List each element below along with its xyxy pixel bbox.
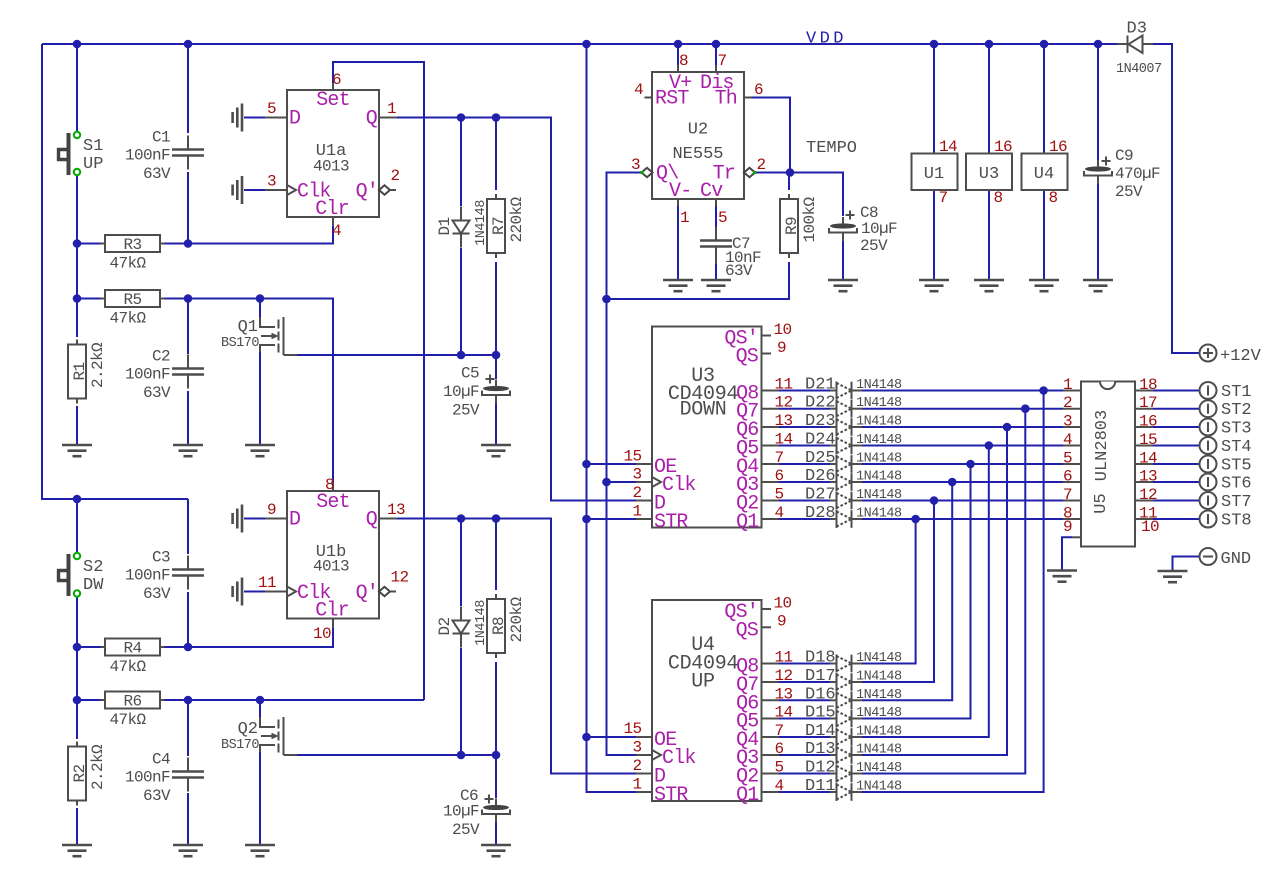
- svg-text:4: 4: [332, 222, 341, 240]
- svg-text:4: 4: [775, 504, 784, 522]
- svg-text:8: 8: [1049, 189, 1058, 207]
- diode D15 1N4148: [805, 704, 902, 728]
- svg-text:10: 10: [774, 321, 792, 339]
- switch S1 UP: [59, 132, 104, 175]
- svg-text:3: 3: [632, 739, 641, 757]
- svg-text:15: 15: [623, 720, 641, 738]
- diode D1 1N4148: [436, 200, 489, 248]
- svg-text:4: 4: [634, 81, 643, 99]
- svg-text:12: 12: [775, 667, 793, 685]
- svg-text:13: 13: [775, 685, 793, 703]
- svg-text:Set: Set: [316, 89, 350, 112]
- wire U4 Q outputs to diodes D18-D11: [779, 664, 830, 793]
- svg-text:Q1: Q1: [736, 784, 759, 807]
- wire U3 power block column: [988, 44, 990, 280]
- svg-text:15: 15: [1139, 431, 1157, 449]
- wire U2 pin5 to C7: [715, 199, 717, 280]
- wire diode D18-D11 cathodes to matrix buses: [862, 391, 1044, 793]
- svg-text:R3: R3: [123, 236, 141, 254]
- resistor R6 47k: [101, 692, 165, 730]
- wire D2 column: [460, 519, 462, 756]
- svg-text:17: 17: [1139, 394, 1157, 412]
- svg-text:7: 7: [775, 722, 784, 740]
- diode D23 1N4148: [805, 412, 902, 436]
- svg-text:Q1: Q1: [736, 511, 759, 534]
- svg-text:3: 3: [631, 156, 640, 174]
- svg-text:1N4007: 1N4007: [1116, 62, 1162, 77]
- svg-text:63V: 63V: [143, 384, 171, 402]
- connector ST2: [1200, 400, 1252, 420]
- svg-text:1N4148: 1N4148: [856, 507, 902, 522]
- svg-text:8: 8: [679, 52, 688, 70]
- svg-text:16: 16: [1049, 138, 1067, 156]
- svg-text:GND: GND: [1221, 550, 1252, 569]
- svg-text:14: 14: [775, 431, 793, 449]
- svg-text:U2: U2: [688, 121, 708, 140]
- flip-flop U1b 4013: [258, 476, 409, 643]
- wire U1b Q output to U4 D: [397, 514, 636, 773]
- wire R5 row to U1b Set: [77, 294, 333, 483]
- svg-text:ST8: ST8: [1221, 512, 1252, 531]
- svg-text:3: 3: [1063, 413, 1072, 431]
- svg-text:1N4148: 1N4148: [856, 706, 902, 721]
- wire C2 column: [187, 299, 189, 446]
- svg-text:D1: D1: [436, 217, 454, 235]
- svg-text:14: 14: [939, 138, 957, 156]
- timer U2 NE555: [631, 52, 766, 227]
- wire VDD-OE-STR net x587: [587, 44, 637, 792]
- svg-text:1: 1: [632, 503, 641, 521]
- svg-text:Q: Q: [366, 108, 378, 131]
- resistor R7 220k: [487, 194, 526, 258]
- grounds under power blocks: [919, 280, 1059, 291]
- capacitor C3 100nF 63V: [125, 549, 204, 603]
- shift register U3 CD4094 DOWN: [623, 321, 792, 534]
- svg-text:Clk: Clk: [662, 474, 696, 497]
- svg-text:1N4148: 1N4148: [856, 651, 902, 666]
- svg-text:D22: D22: [805, 394, 836, 413]
- svg-text:NE555: NE555: [672, 145, 723, 164]
- svg-text:STR: STR: [654, 511, 688, 534]
- wire GND connector to ground: [1173, 557, 1200, 572]
- power block U1 pins 14/7: [912, 138, 958, 207]
- svg-text:Q': Q': [356, 582, 378, 605]
- svg-text:1N4148: 1N4148: [856, 688, 902, 703]
- wire C6 to ground: [495, 755, 497, 845]
- wire diode D21-D28 cathodes to ULN inputs: [862, 386, 1063, 523]
- wire Q2 source to ground: [259, 752, 261, 845]
- svg-text:Th: Th: [715, 88, 737, 111]
- capacitor C2 100nF 63V: [125, 348, 204, 402]
- wire D1 column: [460, 118, 462, 356]
- svg-text:12: 12: [1139, 486, 1157, 504]
- wire U2 Tr pin2 to R9/C8 TEMPO net: [755, 168, 844, 216]
- diode D27 1N4148: [805, 486, 902, 510]
- svg-text:ULN2803: ULN2803: [1093, 410, 1112, 481]
- wire R3 row to U1a Clr: [77, 226, 333, 248]
- connector ST8: [1200, 511, 1252, 531]
- svg-text:6: 6: [1063, 468, 1072, 486]
- svg-text:25V: 25V: [860, 237, 888, 255]
- svg-text:BS170: BS170: [221, 738, 259, 753]
- transistor Q2 BS170: [221, 717, 297, 755]
- svg-text:Clr: Clr: [315, 600, 349, 623]
- svg-text:Set: Set: [316, 491, 350, 514]
- diode D25 1N4148: [805, 449, 902, 473]
- svg-text:5: 5: [267, 100, 276, 118]
- ground at GND connector: [1158, 571, 1188, 582]
- svg-text:ST6: ST6: [1221, 475, 1252, 494]
- svg-text:D3: D3: [1127, 20, 1147, 39]
- wire U1a Q output to U3 D: [397, 113, 636, 500]
- wire U2 pin1 to ground: [677, 199, 679, 280]
- svg-text:S2: S2: [83, 558, 103, 577]
- svg-text:D: D: [289, 108, 300, 131]
- connector ST6: [1200, 474, 1252, 494]
- svg-text:D12: D12: [805, 759, 836, 778]
- svg-text:47kΩ: 47kΩ: [110, 310, 147, 328]
- svg-text:2.2kΩ: 2.2kΩ: [89, 342, 107, 388]
- svg-text:VDD: VDD: [806, 30, 847, 49]
- capacitor C1 100nF 63V: [125, 129, 204, 183]
- svg-text:10µF: 10µF: [443, 803, 479, 821]
- diode D17 1N4148: [805, 667, 902, 691]
- svg-text:C3: C3: [152, 549, 170, 567]
- power block U4 pins 16/8: [1022, 138, 1068, 207]
- svg-text:16: 16: [1139, 413, 1157, 431]
- svg-text:1N4148: 1N4148: [856, 488, 902, 503]
- wire VDD top rail: [42, 44, 1117, 499]
- svg-text:6: 6: [775, 467, 784, 485]
- capacitor C8 10uF 25V: [829, 204, 897, 255]
- svg-text:5: 5: [718, 209, 727, 227]
- svg-text:5: 5: [775, 759, 784, 777]
- svg-text:D15: D15: [805, 704, 836, 723]
- svg-text:D17: D17: [805, 667, 836, 686]
- svg-text:U1: U1: [924, 165, 944, 184]
- svg-text:25V: 25V: [1115, 183, 1143, 201]
- svg-text:10: 10: [313, 625, 331, 643]
- diode D13 1N4148: [805, 740, 902, 764]
- svg-text:ST2: ST2: [1221, 401, 1252, 420]
- svg-text:63V: 63V: [725, 262, 753, 280]
- wire U2 Th pin6 to Tr net: [752, 98, 791, 173]
- wire U1 power block column: [933, 44, 935, 280]
- svg-text:Clk: Clk: [662, 747, 696, 770]
- svg-text:4: 4: [1063, 431, 1072, 449]
- ground at U5 pin9: [1047, 571, 1077, 582]
- connector GND: [1200, 548, 1252, 569]
- diode D22 1N4148: [805, 394, 902, 418]
- svg-text:ST4: ST4: [1221, 438, 1252, 457]
- svg-text:ST7: ST7: [1221, 493, 1252, 512]
- svg-text:D18: D18: [805, 649, 836, 668]
- svg-text:QS: QS: [736, 346, 759, 369]
- capacitor C7 10nF 63V: [700, 227, 761, 280]
- svg-text:R8: R8: [490, 617, 508, 635]
- svg-text:S1: S1: [83, 137, 103, 156]
- wire C1 column: [187, 44, 189, 244]
- diode D28 1N4148: [805, 504, 902, 528]
- wire U3 Clk pin3: [607, 481, 637, 483]
- svg-text:47kΩ: 47kΩ: [110, 711, 147, 729]
- svg-text:D: D: [289, 509, 300, 532]
- svg-text:100nF: 100nF: [125, 147, 170, 165]
- svg-text:8: 8: [994, 189, 1003, 207]
- svg-text:12: 12: [775, 394, 793, 412]
- wire VDD to U2 pin 7: [715, 44, 717, 65]
- ground under R2 C4 Q2 C6: [62, 845, 511, 856]
- svg-text:DOWN: DOWN: [680, 399, 727, 422]
- svg-text:D14: D14: [805, 722, 836, 741]
- svg-text:D11: D11: [805, 777, 836, 796]
- svg-text:C1: C1: [152, 129, 170, 147]
- wire R8 column: [495, 519, 497, 756]
- connector ST5: [1200, 456, 1252, 476]
- diode D12 1N4148: [805, 759, 902, 783]
- svg-text:3: 3: [632, 466, 641, 484]
- svg-text:1N4148: 1N4148: [856, 725, 902, 740]
- svg-text:D13: D13: [805, 740, 836, 759]
- svg-text:R1: R1: [71, 362, 89, 380]
- diode D26 1N4148: [805, 467, 902, 491]
- capacitor C6 10uF 25V: [443, 787, 510, 839]
- svg-text:C2: C2: [152, 348, 170, 366]
- wire U4 OE pin15: [587, 736, 637, 738]
- node S1 column junctions: [73, 239, 82, 303]
- svg-text:47kΩ: 47kΩ: [110, 658, 147, 676]
- svg-text:U3: U3: [979, 165, 999, 184]
- svg-text:25V: 25V: [452, 402, 480, 420]
- svg-text:RST: RST: [655, 88, 689, 111]
- wire C5 to ground: [495, 355, 497, 445]
- svg-text:100nF: 100nF: [125, 366, 170, 384]
- resistor R3 47k: [101, 235, 165, 273]
- svg-text:11: 11: [775, 376, 793, 394]
- svg-text:1: 1: [680, 209, 689, 227]
- wire U4 power block column: [1043, 44, 1045, 280]
- net label VDD: [806, 30, 847, 49]
- driver U5 ULN2803: [1063, 376, 1159, 547]
- svg-text:10µF: 10µF: [443, 383, 479, 401]
- svg-text:12: 12: [391, 569, 409, 587]
- svg-text:BS170: BS170: [221, 336, 259, 351]
- resistor R2 2.2k: [68, 742, 107, 806]
- svg-text:D28: D28: [805, 504, 836, 523]
- svg-text:R2: R2: [71, 764, 89, 782]
- svg-text:5: 5: [775, 486, 784, 504]
- shift register U4 CD4094 UP: [623, 595, 792, 808]
- switch S2 DW: [59, 553, 105, 597]
- wire Q1 gate row: [297, 351, 500, 360]
- wire U3 OE pin15: [587, 463, 637, 465]
- wire S2 branch / R2 column: [73, 499, 82, 845]
- svg-text:D16: D16: [805, 685, 836, 704]
- svg-text:UP: UP: [691, 671, 714, 694]
- svg-text:16: 16: [994, 138, 1012, 156]
- svg-text:100kΩ: 100kΩ: [801, 197, 819, 243]
- svg-text:100nF: 100nF: [125, 769, 170, 787]
- svg-text:5: 5: [1063, 450, 1072, 468]
- svg-text:ST1: ST1: [1221, 383, 1252, 402]
- diode D3 1N4007: [1116, 20, 1162, 78]
- ground at U1a D pin: [233, 104, 265, 132]
- svg-text:2: 2: [391, 167, 400, 185]
- wire C3 column: [184, 499, 193, 651]
- wire U5 pin9 to ground: [1062, 537, 1072, 570]
- svg-text:4013: 4013: [313, 558, 349, 576]
- wire C4 column: [187, 700, 189, 845]
- svg-text:10µF: 10µF: [861, 220, 897, 238]
- wire R7 column: [495, 118, 497, 356]
- svg-text:6: 6: [754, 81, 763, 99]
- svg-text:R6: R6: [123, 693, 141, 711]
- svg-text:+12V: +12V: [1220, 347, 1262, 366]
- wire R4 row to U1b Clr: [77, 628, 333, 647]
- diode D2 1N4148: [436, 600, 489, 648]
- svg-text:D24: D24: [805, 431, 836, 450]
- svg-text:6: 6: [775, 740, 784, 758]
- capacitor C9 470uF 25V: [1084, 147, 1160, 201]
- ground under C7: [701, 280, 731, 291]
- svg-text:C4: C4: [152, 751, 170, 769]
- node VDD rail junctions: [73, 40, 1103, 504]
- connector ST4: [1200, 437, 1252, 457]
- svg-text:U4: U4: [1034, 165, 1054, 184]
- diode D18 1N4148: [805, 649, 902, 673]
- svg-text:1N4148: 1N4148: [856, 433, 902, 448]
- svg-text:Q1: Q1: [238, 318, 258, 337]
- wire R9 bottom to clock net: [607, 173, 790, 300]
- svg-text:D2: D2: [436, 617, 454, 635]
- svg-text:63V: 63V: [143, 787, 171, 805]
- wire D3 to +12V rail: [1098, 44, 1200, 353]
- svg-text:10: 10: [1141, 518, 1159, 536]
- ground under R1 C2 Q1: [62, 445, 275, 456]
- svg-text:13: 13: [387, 501, 405, 519]
- svg-text:1N4148: 1N4148: [856, 743, 902, 758]
- resistor R4 47k: [101, 639, 165, 677]
- svg-text:R9: R9: [783, 217, 801, 235]
- connector ST3: [1200, 419, 1252, 439]
- svg-text:14: 14: [1139, 450, 1157, 468]
- ground under U2 pin1: [663, 280, 693, 291]
- connector ST7: [1200, 492, 1252, 512]
- svg-text:ST5: ST5: [1221, 457, 1252, 476]
- svg-text:25V: 25V: [452, 821, 480, 839]
- resistor R5 47k: [101, 290, 165, 328]
- svg-text:1: 1: [387, 100, 396, 118]
- svg-text:1N4148: 1N4148: [856, 396, 902, 411]
- wire C9 column: [1097, 44, 1099, 280]
- svg-text:63V: 63V: [143, 585, 171, 603]
- svg-text:9: 9: [777, 613, 786, 631]
- svg-text:Q': Q': [356, 181, 378, 204]
- svg-text:DW: DW: [83, 576, 104, 595]
- svg-text:TEMPO: TEMPO: [806, 139, 857, 158]
- svg-text:15: 15: [623, 448, 641, 466]
- svg-text:100nF: 100nF: [125, 567, 170, 585]
- svg-text:U5: U5: [1092, 493, 1111, 513]
- svg-text:7: 7: [1063, 486, 1072, 504]
- svg-text:1N4148: 1N4148: [856, 452, 902, 467]
- ground at U1b Clk pin: [233, 578, 265, 606]
- svg-text:1: 1: [1063, 376, 1072, 394]
- ground under C8: [828, 280, 858, 291]
- svg-text:2: 2: [757, 156, 766, 174]
- svg-text:11: 11: [258, 574, 276, 592]
- wire U3 STR pin1: [587, 518, 637, 520]
- ground at U1b D pin: [233, 505, 265, 533]
- svg-text:C9: C9: [1115, 147, 1133, 165]
- svg-text:6: 6: [332, 71, 341, 89]
- svg-text:2: 2: [632, 484, 641, 502]
- svg-text:7: 7: [775, 449, 784, 467]
- wire Q2 drain: [259, 700, 261, 717]
- diode D11 1N4148: [805, 777, 902, 801]
- wire U5 outputs to ST connectors: [1153, 391, 1200, 520]
- svg-text:Clr: Clr: [315, 198, 349, 221]
- svg-text:3: 3: [267, 173, 276, 191]
- svg-text:2: 2: [1063, 394, 1072, 412]
- svg-text:V-: V-: [669, 180, 691, 203]
- svg-text:9: 9: [1063, 518, 1072, 536]
- svg-text:11: 11: [775, 649, 793, 667]
- ground under C5: [481, 445, 511, 456]
- wire Q1 source to ground: [259, 352, 261, 445]
- svg-text:D27: D27: [805, 486, 836, 505]
- svg-text:UP: UP: [83, 155, 103, 174]
- svg-text:1N4148: 1N4148: [856, 378, 902, 393]
- svg-text:47kΩ: 47kΩ: [110, 255, 147, 273]
- svg-text:9: 9: [777, 339, 786, 357]
- wire S1 branch / R1 column: [76, 44, 78, 445]
- diode D24 1N4148: [805, 431, 902, 455]
- ground at U1a Clk pin: [233, 176, 265, 204]
- svg-text:13: 13: [775, 412, 793, 430]
- svg-text:220kΩ: 220kΩ: [508, 197, 526, 243]
- diode D14 1N4148: [805, 722, 902, 746]
- diode D21 1N4148: [805, 376, 902, 400]
- wire R6 row to U1a Set net: [77, 696, 424, 705]
- svg-text:R4: R4: [123, 640, 141, 658]
- svg-text:1N4148: 1N4148: [856, 470, 902, 485]
- capacitor C5 10uF 25V: [443, 365, 510, 420]
- resistor R9 100k: [780, 194, 819, 258]
- svg-text:D23: D23: [805, 412, 836, 431]
- svg-text:C5: C5: [461, 365, 479, 383]
- svg-text:2.2kΩ: 2.2kΩ: [89, 744, 107, 790]
- resistor R1 2.2k: [68, 340, 107, 404]
- resistor R8 220k: [487, 594, 526, 658]
- wire U1a Set to R6 net: [333, 62, 424, 700]
- power block U3 pins 16/8: [966, 138, 1012, 207]
- node clock net junctions: [602, 295, 611, 487]
- connector +12V: [1200, 345, 1262, 367]
- svg-text:220kΩ: 220kΩ: [508, 597, 526, 643]
- connector ST1: [1200, 382, 1252, 402]
- svg-text:470µF: 470µF: [1115, 165, 1160, 183]
- svg-text:D26: D26: [805, 467, 836, 486]
- wire Q1 drain: [259, 299, 261, 318]
- svg-text:1N4148: 1N4148: [856, 415, 902, 430]
- svg-text:13: 13: [1139, 468, 1157, 486]
- svg-text:10: 10: [774, 595, 792, 613]
- svg-text:D21: D21: [805, 376, 836, 395]
- svg-text:9: 9: [267, 501, 276, 519]
- svg-text:ST3: ST3: [1221, 420, 1252, 439]
- svg-text:1N4148: 1N4148: [856, 780, 902, 795]
